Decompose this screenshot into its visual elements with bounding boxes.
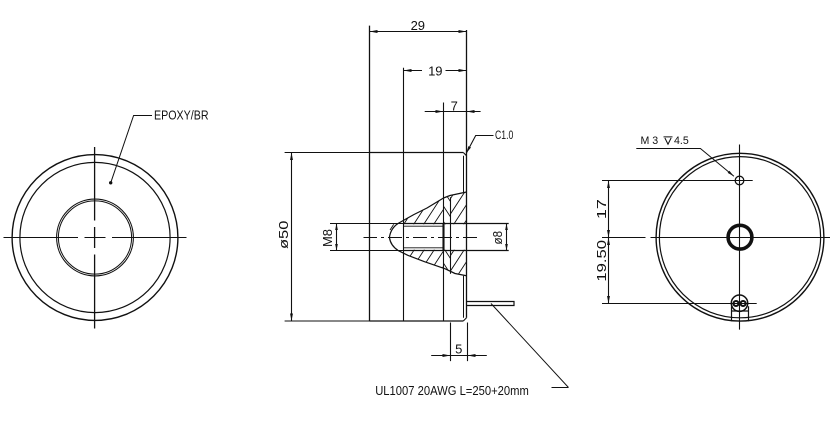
svg-text:4.5: 4.5	[674, 135, 689, 147]
svg-text:29: 29	[411, 18, 425, 33]
svg-text:17: 17	[594, 199, 609, 219]
svg-text:EPOXY/BR: EPOXY/BR	[154, 107, 209, 122]
svg-text:ø8: ø8	[490, 231, 505, 245]
svg-text:UL1007 20AWG L=250+20mm: UL1007 20AWG L=250+20mm	[375, 383, 529, 398]
svg-text:5: 5	[455, 341, 462, 356]
svg-text:7: 7	[451, 99, 458, 114]
svg-text:19: 19	[428, 64, 442, 79]
svg-text:M 3: M 3	[641, 135, 659, 147]
svg-text:C1.0: C1.0	[495, 128, 514, 142]
svg-text:19.50: 19.50	[594, 240, 609, 282]
svg-text:ø50: ø50	[276, 221, 291, 249]
svg-text:M8: M8	[320, 229, 335, 247]
